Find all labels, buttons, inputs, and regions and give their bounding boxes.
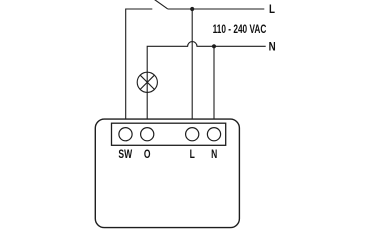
switch S1 blade [153, 0, 168, 9]
wire L vertical drop to terminal [191, 9, 193, 120]
node junction dot on L line [190, 7, 194, 11]
lamp E1 cross [140, 75, 154, 89]
svg-text:O: O [144, 149, 151, 162]
node junction dot on N line [212, 44, 216, 48]
terminal O hole [141, 128, 154, 141]
wire N vertical drop to terminal [213, 46, 215, 120]
wire L top-left horizontal [126, 9, 153, 120]
svg-text:L: L [269, 3, 275, 16]
svg-text:N: N [269, 41, 276, 54]
lamp E1 circle [137, 72, 157, 92]
terminal N hole [207, 128, 220, 141]
svg-text:110 - 240 VAC: 110 - 240 VAC [213, 24, 267, 37]
svg-text:N: N [211, 149, 217, 162]
svg-text:SW: SW [118, 149, 132, 162]
terminal SW hole [119, 128, 132, 141]
device U1 terminal strip [112, 123, 226, 145]
device U1 body [95, 119, 239, 228]
wire L top-right horizontal [168, 8, 265, 10]
terminal L hole [186, 128, 199, 141]
wire N horizontal with hop over L drop [147, 42, 266, 120]
svg-text:L: L [190, 149, 195, 162]
